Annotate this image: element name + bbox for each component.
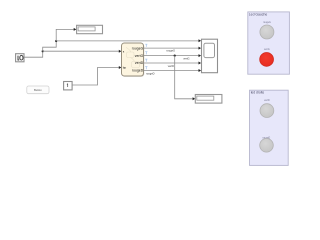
svg-text:vertD: vertD	[264, 99, 270, 102]
node junction D2	[55, 40, 57, 42]
wire D2 to scope input 1	[56, 40, 199, 42]
wire chart out3 to scope in4	[144, 62, 199, 64]
svg-text:vertD: vertD	[168, 64, 174, 68]
svg-text:rougeG: rougeG	[132, 46, 144, 50]
lamp rougeG (gray)	[260, 21, 274, 39]
svg-text:vertG: vertG	[183, 56, 189, 60]
svg-text:vertD: vertD	[135, 61, 144, 65]
button block	[27, 86, 49, 94]
display2 Display	[195, 95, 222, 104]
svg-text:Led Gauche: Led Gauche	[249, 12, 268, 16]
svg-text:bp: bp	[123, 66, 127, 70]
wire D2 to display1	[56, 29, 74, 41]
svg-text:rougeD: rougeD	[132, 69, 144, 73]
wire chart out4 to scope in5	[144, 70, 199, 72]
svg-text:rougeD: rougeD	[146, 72, 155, 76]
wire D1 to chart input 1	[43, 50, 119, 52]
node junction D1	[42, 50, 44, 52]
panel Led Gauche	[248, 12, 290, 74]
scope Scope	[202, 39, 218, 72]
display1 Display	[77, 25, 103, 33]
constant 1	[64, 82, 73, 90]
svg-text:led droite: led droite	[251, 91, 265, 95]
chart Chart (Stateflow)	[122, 43, 145, 77]
wire chart out1 to scope in2	[144, 47, 199, 49]
svg-text:vertG: vertG	[135, 54, 144, 58]
svg-text:vertG: vertG	[264, 48, 270, 51]
lamp vertG (lit red)	[260, 48, 274, 66]
clock block	[16, 54, 24, 62]
wire junction to display2	[175, 56, 193, 99]
wire chart out2 to scope in3	[144, 55, 199, 57]
lamp vertD (gray)	[260, 99, 274, 117]
node junction on vertG wire	[174, 55, 176, 57]
svg-text:rougeG: rougeG	[263, 21, 271, 24]
svg-text:rougeG: rougeG	[166, 49, 175, 53]
lamp rougeD (gray)	[260, 136, 274, 152]
panel led droite	[250, 90, 289, 165]
type badges on chart outputs	[145, 44, 147, 69]
wire D1 up to D2	[43, 41, 57, 51]
wire constant to chart input 2	[72, 68, 119, 86]
svg-text:Button: Button	[34, 88, 42, 92]
wire clock output	[24, 51, 43, 57]
